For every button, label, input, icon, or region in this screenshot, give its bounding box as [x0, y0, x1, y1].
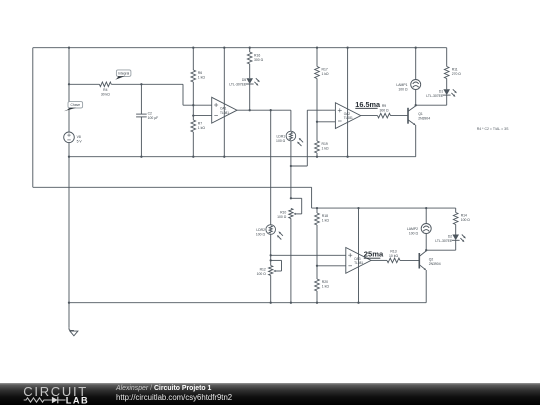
wire ground rail 3	[69, 302, 426, 304]
node V8 top rail junction	[68, 47, 70, 49]
svg-text:R9: R9	[382, 104, 386, 108]
svg-text:1 kΩ: 1 kΩ	[322, 285, 330, 289]
resistor R9	[378, 113, 391, 118]
node R10 wiper tap junction	[290, 197, 292, 199]
node OA3 Vminus rail junction	[357, 302, 359, 304]
svg-text:R7: R7	[198, 121, 202, 125]
node R18 tap junction	[316, 207, 318, 209]
resistor R20	[315, 279, 320, 291]
wire V8 branch bottom to ground	[68, 143, 70, 328]
value label LDR1 100 Ohm	[276, 134, 286, 143]
svg-text:16.5ma: 16.5ma	[355, 100, 381, 109]
node OA2 minus junction	[316, 121, 318, 123]
node R17 top rail junction	[316, 47, 318, 49]
svg-text:D1: D1	[439, 89, 443, 93]
svg-text:LTL-307EE: LTL-307EE	[435, 239, 453, 243]
node R19 ground junction	[316, 156, 318, 158]
node OA2 Vminus rail junction	[346, 156, 348, 158]
value label D5 LTL-307EE	[229, 78, 247, 87]
wire OA3 power pins	[358, 208, 360, 303]
wire R10 wiper loop	[291, 198, 302, 215]
footer bar	[0, 383, 540, 405]
node OA1 minus junction	[192, 114, 194, 116]
wire R19 top lead	[316, 122, 318, 141]
resistor R14	[453, 213, 458, 225]
svg-text:LDR2: LDR2	[256, 228, 265, 232]
value label R16 300 Ohm	[254, 54, 264, 63]
svg-text:1 kΩ: 1 kΩ	[198, 76, 206, 80]
node LAMP1 top rail junction	[415, 47, 417, 49]
resistor R19	[315, 141, 320, 153]
svg-text:LAMP2: LAMP2	[407, 227, 418, 231]
svg-text:TL081: TL081	[344, 116, 353, 120]
wire R14 to D2	[455, 225, 457, 235]
wire R9 to Q1 base	[391, 115, 408, 117]
capacitor C2	[136, 114, 147, 117]
svg-text:1 kΩ: 1 kΩ	[322, 219, 330, 223]
svg-text:V8: V8	[77, 135, 81, 139]
wire Q2 emitter to ground rail	[425, 270, 427, 303]
wire LDR2 branch upper	[270, 110, 272, 225]
value label C2 100uF	[148, 112, 159, 120]
wire C2 bottom lead	[140, 117, 142, 157]
wire LDR2 to R12	[270, 255, 272, 265]
value label R7 1 kOhm	[198, 121, 206, 129]
wire C2 top lead	[140, 84, 142, 114]
svg-text:LAB: LAB	[66, 395, 89, 405]
wire R16 to D5	[249, 64, 251, 78]
annotation formula R4*C2	[477, 127, 509, 131]
svg-text:R11: R11	[452, 68, 458, 72]
node LAMP2 top junction	[425, 207, 427, 209]
LED D1 emission arrows	[451, 89, 456, 97]
transistor Q1	[408, 106, 416, 125]
wire D5 bottom lead	[249, 84, 251, 110]
svg-text:30 kΩ: 30 kΩ	[101, 93, 110, 97]
value label R4 30 kOhm	[101, 88, 110, 97]
wire ground rail 1	[69, 156, 416, 158]
voltage source V8	[64, 132, 75, 143]
svg-text:1 kΩ: 1 kΩ	[198, 126, 206, 130]
wire R11 corner from top rail	[446, 48, 448, 67]
LED D1	[443, 89, 451, 95]
annotation 16.5ma	[355, 100, 381, 109]
svg-text:1 kΩ: 1 kΩ	[322, 147, 330, 151]
svg-text:TL081: TL081	[354, 261, 363, 265]
value label R13 10 kOhm	[389, 250, 398, 258]
wire collector node to D2 branch	[426, 249, 456, 251]
wire Q1 collector up	[415, 105, 417, 106]
svg-text:R20: R20	[322, 280, 328, 284]
svg-text:R17: R17	[322, 68, 328, 72]
resistor R11	[444, 67, 449, 79]
node C2 ground junction	[140, 156, 142, 158]
value label D1 LTL-307EE	[426, 89, 444, 98]
svg-text:100 Ω: 100 Ω	[409, 231, 419, 235]
svg-text:LTL-307EE: LTL-307EE	[229, 83, 247, 87]
op-amp OA1	[212, 97, 237, 123]
transistor Q2	[419, 251, 426, 270]
node OA1 Vplus rail junction	[223, 47, 225, 49]
svg-text:Integral: Integral	[118, 72, 129, 76]
resistor R7	[191, 120, 196, 132]
wire R7 top lead	[192, 116, 194, 120]
svg-text:R10: R10	[280, 210, 286, 214]
svg-text:100 Ω: 100 Ω	[256, 232, 266, 236]
svg-text:R12: R12	[260, 268, 266, 272]
svg-text:25ma: 25ma	[364, 250, 384, 259]
svg-text:300 Ω: 300 Ω	[379, 108, 389, 112]
svg-text:R13: R13	[390, 250, 396, 254]
node R20 ground junction	[316, 302, 318, 304]
value label R20 1 kOhm	[322, 280, 330, 289]
flag label Integral	[115, 70, 131, 80]
svg-text:100 Ω: 100 Ω	[277, 215, 287, 219]
svg-text:R19: R19	[322, 142, 328, 146]
LDR1 light arrows	[297, 138, 303, 146]
resistor R16	[247, 52, 252, 64]
wire OA1 minus input	[193, 115, 211, 117]
svg-text:Chave: Chave	[71, 103, 81, 107]
svg-text:D2: D2	[448, 235, 452, 239]
node OA3 plus wire junction	[270, 254, 272, 256]
resistor R4	[99, 82, 111, 87]
value label R18 1 kOhm	[322, 214, 330, 223]
wire R7 bottom lead	[192, 132, 194, 157]
svg-text:R14: R14	[461, 214, 467, 218]
LED D5	[246, 78, 254, 84]
wire LAMP1 bottom lead	[415, 90, 417, 106]
wire jog to OA2 plus	[291, 110, 336, 166]
svg-text:R18: R18	[322, 214, 328, 218]
wire OA2 power pins	[347, 48, 349, 157]
value label V8 5V	[77, 135, 83, 144]
wire R17 to OA2 minus node	[316, 79, 318, 122]
flag label Chave	[64, 102, 83, 112]
wire R18 to OA3 minus node	[316, 225, 318, 266]
svg-text:OA2: OA2	[344, 112, 351, 116]
wire R18 top lead	[316, 208, 318, 213]
LED D5 emission arrows	[254, 78, 259, 86]
node D5 output junction	[249, 109, 251, 111]
photoresistor LDR2	[266, 225, 276, 235]
potentiometer R12	[269, 266, 273, 276]
annotation 25ma	[364, 250, 384, 259]
svg-text:OA3: OA3	[354, 257, 361, 261]
node ground rail 3 junction	[68, 302, 70, 304]
svg-text:2N3904: 2N3904	[418, 117, 430, 121]
resistor R17	[315, 67, 320, 79]
wire OA2 minus input	[317, 121, 335, 123]
wire LAMP1 top lead	[415, 48, 417, 80]
wire V+ top rail	[33, 47, 447, 49]
wire LDR1 bottom lead	[290, 141, 292, 166]
value label LDR2 100 Ohm	[256, 228, 266, 237]
lamp LAMP2	[421, 224, 431, 234]
wire V+ jog down	[311, 187, 313, 208]
svg-text:100 µF: 100 µF	[148, 116, 159, 120]
wire OA3 output	[371, 259, 387, 261]
svg-text:100 Ω: 100 Ω	[257, 272, 267, 276]
wire R6 top lead	[192, 48, 194, 70]
LDR2 light arrows	[277, 231, 283, 239]
node R12 wiper tap junction	[270, 259, 272, 261]
op-amp OA3	[346, 248, 371, 274]
node OA1 Vminus rail junction	[223, 156, 225, 158]
op-amp OA2	[335, 103, 360, 129]
wire V8 branch top	[68, 48, 70, 132]
svg-text:100 Ω: 100 Ω	[276, 139, 286, 143]
value label R12 100 Ohm	[257, 268, 267, 277]
wire OA1 power pins	[223, 48, 225, 157]
wire OA3 plus input	[271, 254, 346, 256]
wire V+ left edge	[32, 48, 34, 188]
wire R19 bottom lead	[316, 153, 318, 157]
node R10 ground junction	[290, 302, 292, 304]
svg-text:OA1: OA1	[220, 107, 227, 111]
wire R4 right lead	[111, 83, 183, 85]
svg-text:5 V: 5 V	[77, 140, 83, 144]
value label R17 1 kOhm	[322, 68, 330, 77]
value label LAMP2 100 Ohm	[407, 227, 419, 236]
wire R17 top lead	[316, 48, 318, 67]
node C2 tap junction	[140, 83, 142, 85]
wire V+ rail 2	[33, 186, 312, 188]
wire D1 bottom lead	[446, 95, 448, 105]
value label R6 1 kOhm	[198, 71, 206, 80]
svg-text:C2: C2	[148, 112, 152, 116]
wire R12 wiper loop	[271, 260, 282, 272]
svg-text:R16: R16	[254, 54, 260, 58]
ground	[69, 328, 78, 336]
node Q2 collector junction	[425, 249, 427, 251]
resistor R6	[191, 70, 196, 82]
node R7 ground junction	[192, 156, 194, 158]
wire OA1 output corner down	[290, 110, 292, 131]
svg-text:R4 * C2 = T/AL = 3S: R4 * C2 = T/AL = 3S	[477, 127, 509, 131]
LED D2 emission arrows	[460, 235, 465, 243]
wire R14 corner from supply	[455, 208, 457, 212]
wire R10 bottom lead	[290, 218, 292, 302]
svg-text:R6: R6	[198, 71, 202, 75]
value label Q2 2N3904	[429, 258, 441, 267]
node Q1 collector junction	[415, 104, 417, 106]
svg-text:TL081: TL081	[220, 111, 229, 115]
footer credit text	[116, 385, 211, 392]
svg-text:10 kΩ: 10 kΩ	[389, 254, 398, 258]
svg-text:Q1: Q1	[418, 112, 423, 116]
node R6 top rail junction	[192, 47, 194, 49]
svg-text:300 Ω: 300 Ω	[254, 58, 264, 62]
svg-text:LTL-307EE: LTL-307EE	[426, 94, 444, 98]
lamp LAMP1	[411, 80, 421, 90]
svg-text:D5: D5	[242, 78, 246, 82]
value label R14 100 Ohm	[461, 214, 471, 223]
footer url text	[116, 393, 232, 402]
node LDR2 branch tee	[270, 109, 272, 111]
node V8 ground junction	[68, 156, 70, 158]
wire R12 bottom lead	[270, 276, 272, 303]
svg-text:2N3904: 2N3904	[429, 262, 441, 266]
wire collector node to D1 branch	[416, 104, 447, 106]
svg-text:270 Ω: 270 Ω	[452, 72, 462, 76]
node R12 ground junction	[270, 302, 272, 304]
value label Q1 2N3904	[418, 112, 430, 121]
wire R6 to plus node	[192, 82, 194, 105]
wire OA2 output	[361, 115, 378, 117]
wire R4 left lead	[69, 83, 99, 85]
svg-text:LAMP1: LAMP1	[396, 83, 407, 87]
node R4 wire tap on V8 branch	[68, 83, 70, 85]
value label R9 300 Ohm	[379, 104, 389, 112]
LED D2	[452, 235, 460, 241]
wire V+ lower rail	[312, 207, 456, 209]
wire Q1 emitter to ground rail	[415, 125, 417, 157]
wire plus node to minus node	[192, 105, 194, 115]
resistor R18	[315, 213, 320, 225]
wire D2 bottom lead	[455, 240, 457, 250]
wire R11 to D1	[446, 79, 448, 90]
wire LAMP2 top lead	[425, 208, 427, 223]
value label LAMP1 100 Ohm	[396, 83, 408, 92]
wire LAMP2 bottom lead	[425, 234, 427, 251]
node OA1 plus junction	[192, 104, 194, 106]
svg-text:LDR1: LDR1	[277, 134, 286, 138]
wire R20 top lead	[316, 266, 318, 279]
svg-text:R4: R4	[103, 88, 107, 92]
node R16 top rail junction	[249, 47, 251, 49]
wire OA1 output	[237, 109, 291, 111]
svg-text:1 kΩ: 1 kΩ	[322, 72, 330, 76]
photoresistor LDR1	[286, 131, 296, 141]
svg-text:100 Ω: 100 Ω	[398, 87, 408, 91]
wire R16 top lead	[249, 48, 251, 52]
resistor R13	[387, 258, 400, 263]
CircuitLab logo	[0, 383, 110, 405]
wire R13 to Q2 base	[400, 259, 419, 261]
svg-text:100 Ω: 100 Ω	[461, 218, 471, 222]
node OA2 Vplus rail junction	[346, 47, 348, 49]
wire jog down to OA1 plus	[183, 84, 212, 105]
node OA3 Vplus junction	[357, 207, 359, 209]
value label R10 100 Ohm	[277, 210, 287, 219]
wire LDR1 to R10	[290, 166, 292, 198]
value label R11 270 Ohm	[452, 68, 462, 77]
wire LDR2 bottom lead	[270, 234, 272, 255]
wire R20 bottom lead	[316, 291, 318, 303]
potentiometer R10	[289, 208, 293, 218]
value label D2 LTL-307EE	[435, 235, 453, 244]
value label R19 1 kOhm	[322, 142, 330, 151]
svg-text:Q2: Q2	[429, 258, 434, 262]
node LDR1 jog junction	[290, 165, 292, 167]
wire OA3 minus input	[317, 265, 346, 267]
wire Q2 collector up	[425, 250, 427, 251]
node OA3 minus junction	[316, 265, 318, 267]
